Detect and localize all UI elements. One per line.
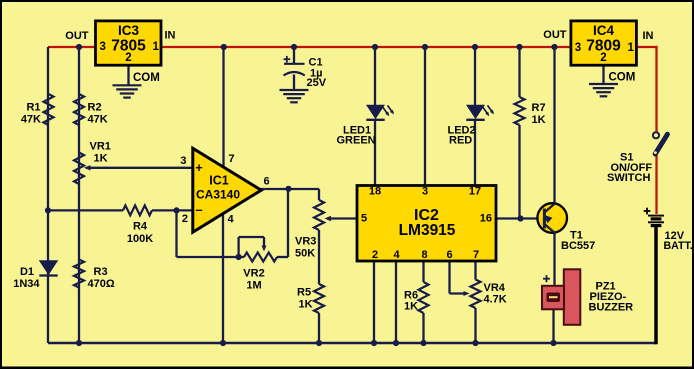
svg-text:17: 17 [469,186,481,198]
svg-text:VR2: VR2 [243,268,264,280]
svg-text:7: 7 [229,153,235,165]
svg-text:8: 8 [421,249,427,261]
svg-text:BUZZER: BUZZER [589,302,634,314]
svg-text:50K: 50K [295,248,315,260]
svg-text:R3: R3 [94,266,108,278]
svg-text:R7: R7 [532,102,546,114]
svg-text:1: 1 [153,41,160,53]
svg-text:+: + [195,161,202,175]
svg-text:VR1: VR1 [90,141,111,153]
svg-text:7: 7 [473,249,479,261]
svg-text:1K: 1K [299,299,313,311]
svg-text:IC1: IC1 [209,174,229,188]
svg-text:CA3140: CA3140 [196,188,240,202]
svg-text:IN: IN [165,30,176,42]
svg-text:6: 6 [264,176,270,188]
svg-text:IN: IN [643,30,654,42]
svg-text:25V: 25V [307,77,327,89]
svg-text:R1: R1 [26,102,40,114]
svg-text:3: 3 [575,42,581,54]
svg-text:4: 4 [228,214,235,226]
svg-text:470Ω: 470Ω [88,278,115,290]
svg-text:5: 5 [361,213,367,225]
svg-text:16: 16 [480,213,492,225]
svg-text:BC557: BC557 [561,240,595,252]
svg-text:3: 3 [422,186,428,198]
svg-text:6: 6 [446,249,452,261]
svg-text:IC4: IC4 [593,23,615,38]
svg-text:R4: R4 [133,221,148,233]
svg-text:18: 18 [369,186,381,198]
svg-text:LM3915: LM3915 [399,222,456,239]
svg-text:1K: 1K [94,153,108,165]
svg-text:OUT: OUT [543,29,567,41]
svg-text:1K: 1K [532,114,546,126]
svg-text:R2: R2 [88,102,102,114]
svg-text:SWITCH: SWITCH [607,172,650,184]
svg-text:BATT.: BATT. [664,240,693,252]
svg-text:COM: COM [609,72,636,84]
svg-text:4: 4 [393,249,400,261]
svg-text:1: 1 [628,42,635,54]
svg-text:47K: 47K [88,114,108,126]
svg-text:COM: COM [133,72,160,84]
svg-text:1K: 1K [404,301,418,313]
svg-text:1N34: 1N34 [13,278,40,290]
svg-text:OUT: OUT [65,30,89,42]
svg-text:R5: R5 [297,287,311,299]
svg-text:2: 2 [372,249,378,261]
svg-text:GREEN: GREEN [337,135,376,147]
svg-text:1M: 1M [246,280,261,292]
svg-text:3: 3 [180,155,186,167]
svg-text:3: 3 [100,41,106,53]
svg-text:−: − [195,204,202,218]
svg-text:2: 2 [600,52,606,64]
svg-text:2: 2 [182,213,188,225]
svg-text:4.7K: 4.7K [484,294,507,306]
svg-text:IC3: IC3 [118,23,140,38]
svg-text:47K: 47K [21,114,41,126]
svg-text:VR3: VR3 [295,236,316,248]
svg-text:RED: RED [449,135,472,147]
svg-text:100K: 100K [127,233,153,245]
svg-text:2: 2 [125,52,131,64]
svg-text:D1: D1 [20,266,34,278]
svg-text:VR4: VR4 [484,282,506,294]
